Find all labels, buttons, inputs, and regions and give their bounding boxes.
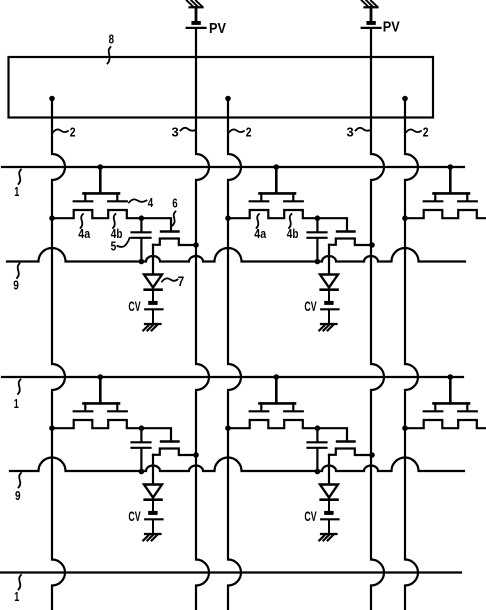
capacitor CV thin plate (cell B2) xyxy=(321,518,338,520)
diode 7 cathode bar (cell A2) xyxy=(321,288,338,291)
svg-text:1: 1 xyxy=(14,589,19,604)
svg-text:PV: PV xyxy=(209,21,226,37)
transistor 4 top electrode bar (cell B1) xyxy=(84,402,120,405)
source/drain wire with channel bumps 4a,4b (cell A3) xyxy=(405,210,486,218)
ground symbol (cell B2) xyxy=(321,533,337,535)
svg-text:4a: 4a xyxy=(254,227,267,241)
wire diode to capacitor CV (cell B2) xyxy=(328,500,330,511)
leader tilde for label 7 xyxy=(162,278,178,281)
photovoltaic cell PV2 thin plate xyxy=(362,27,381,29)
svg-text:1: 1 xyxy=(14,184,19,199)
transistor 6 channel (cell B2) xyxy=(329,449,372,456)
svg-text:4b: 4b xyxy=(287,227,299,241)
wire diode to capacitor CV (cell A2) xyxy=(328,290,330,301)
svg-text:CV: CV xyxy=(128,298,141,314)
transistor 4a/4b gate bars (cell A1) xyxy=(74,200,127,202)
row line 1 (third, bottom) xyxy=(0,571,461,573)
transistor 6 channel (cell B1) xyxy=(153,449,196,456)
junction dot of column line 2 (second) inside bus box xyxy=(225,96,231,102)
leader tilde for label 2 xyxy=(406,129,421,132)
column line 3 (second, from PV2) with hops over row lines 1 xyxy=(371,29,384,610)
leader tilde for label 2 xyxy=(229,129,244,132)
row line 1 (first) xyxy=(2,166,464,168)
transistor 4 gate stub (cell A1) xyxy=(99,167,102,193)
transistor 4 electrode legs (cell A2) xyxy=(261,193,293,200)
storage capacitor 5 stem and plates (cell B1) xyxy=(132,428,151,471)
source/drain wire with channel bumps 4a,4b (cell B3) xyxy=(405,420,486,428)
ground symbol (cell A2) xyxy=(321,323,337,325)
junction dot on row 1 (cell A3) xyxy=(448,164,454,170)
junction dot on row 1 (cell B2) xyxy=(274,374,280,380)
leader squiggle for label 8 xyxy=(108,47,111,64)
column line 2 (second) with hops over row lines 1 xyxy=(228,99,241,610)
transistor 4 electrode legs (cell B2) xyxy=(261,403,293,410)
transistor 4 gate stub (cell B1) xyxy=(99,377,102,403)
photovoltaic cell PV1 top stem xyxy=(195,7,198,21)
source/drain wire with channel bumps 4a,4b (cell B1) xyxy=(52,420,171,442)
junction dot on row 1 (cell A1) xyxy=(98,164,104,170)
column line 2 (first) with hops over row lines 1 xyxy=(52,99,65,610)
capacitor CV thick plate (cell A1) xyxy=(148,301,157,305)
junction dot capacitor 5 to row 9 (cell B1) xyxy=(139,469,145,475)
junction dot capacitor 5 to row 9 (cell A1) xyxy=(139,259,145,265)
row line 9 (first) with hop bumps xyxy=(7,248,465,262)
svg-text:6: 6 xyxy=(172,196,177,211)
svg-text:CV: CV xyxy=(304,508,317,524)
wire transistor 6 down to diode (cell B2) xyxy=(328,455,330,484)
photovoltaic cell PV1 light hatches xyxy=(187,0,203,6)
diode 7 triangle (cell A2) xyxy=(320,275,338,288)
transistor 4 top electrode bar (cell B2) xyxy=(260,402,296,405)
diode 7 triangle (cell B1) xyxy=(144,485,162,498)
capacitor CV thick plate (cell B1) xyxy=(148,511,157,515)
transistor 4 electrode legs (cell A3) xyxy=(435,193,467,200)
transistor 4 top electrode bar (cell B3) xyxy=(434,402,470,405)
svg-text:2: 2 xyxy=(246,124,252,139)
photovoltaic cell PV1 light-hatch bar xyxy=(190,6,203,8)
photovoltaic cell PV2 light-hatch bar xyxy=(365,6,378,8)
transistor 4a/4b gate bars (cell B3) xyxy=(424,410,477,412)
junction dot on column 2 (cell B3) xyxy=(402,425,408,431)
photovoltaic cell PV2 thick plate xyxy=(366,21,375,25)
junction dot on column 2 (cell B2) xyxy=(225,425,231,431)
junction dot on row 1 (cell B3) xyxy=(448,374,454,380)
diode 7 cathode bar (cell B2) xyxy=(321,498,338,501)
ground symbol (cell B1) xyxy=(145,533,161,535)
leader squiggle for label 4a xyxy=(81,214,84,228)
leader squiggle for label 4b xyxy=(113,214,116,228)
label 9 for first row line 9 xyxy=(17,264,20,279)
photovoltaic cell PV1 thick plate xyxy=(191,21,200,25)
transistor 4 top electrode bar (cell A2) xyxy=(260,192,296,195)
junction dot on column 2 (cell A1) xyxy=(49,215,55,221)
svg-text:7: 7 xyxy=(178,274,185,289)
source/drain wire with channel bumps 4a,4b (cell A2) xyxy=(228,210,347,232)
capacitor CV thin plate (cell A1) xyxy=(145,308,162,310)
junction dot on column 2 (cell A2) xyxy=(225,215,231,221)
svg-text:9: 9 xyxy=(13,278,19,293)
column line 3 (first, from PV1) with hops over row lines 1 xyxy=(196,29,209,610)
photovoltaic cell PV1 thin plate xyxy=(187,27,206,29)
junction dot at storage node (cell B1) xyxy=(139,425,145,431)
junction dot capacitor 5 to row 9 (cell A2) xyxy=(315,259,321,265)
junction dot at storage node (cell A2) xyxy=(315,215,321,221)
transistor 6 channel (cell A2) xyxy=(329,239,372,246)
transistor 6 gate bar (cell B1) xyxy=(161,440,179,442)
svg-text:CV: CV xyxy=(128,508,141,524)
transistor 4 electrode legs (cell B1) xyxy=(85,403,117,410)
wire diode to capacitor CV (cell A1) xyxy=(152,290,154,301)
photovoltaic cell PV2 light hatches xyxy=(362,0,378,6)
diode 7 triangle (cell B2) xyxy=(320,485,338,498)
transistor 4a/4b gate bars (cell B1) xyxy=(74,410,127,412)
transistor 6 gate bar (cell A2) xyxy=(337,230,355,232)
transistor 4 top electrode bar (cell A1) xyxy=(84,192,120,195)
junction dot at storage node (cell B2) xyxy=(315,425,321,431)
leader for label 5 xyxy=(118,238,130,247)
wire transistor 6 down to diode (cell A2) xyxy=(328,245,330,274)
label 1 for second row line xyxy=(18,380,21,395)
svg-text:5: 5 xyxy=(111,238,117,253)
svg-text:9: 9 xyxy=(15,488,21,503)
junction dot transistor 6 to column 3 (cell A2) xyxy=(369,242,375,248)
capacitor CV thin plate (cell B1) xyxy=(145,518,162,520)
row line 9 (second) with hop bumps xyxy=(10,458,464,472)
leader squiggle for label 4b xyxy=(289,214,292,228)
leader squiggle for label 4a xyxy=(257,214,260,228)
leader tilde for label 2 xyxy=(53,129,68,132)
diode 7 cathode bar (cell B1) xyxy=(145,498,162,501)
leader tilde for label 3 xyxy=(181,128,196,131)
junction dot on column 2 (cell B1) xyxy=(49,425,55,431)
svg-text:8: 8 xyxy=(109,32,114,47)
transistor 6 channel (cell A1) xyxy=(153,239,196,246)
row line 1 (second) xyxy=(2,376,463,378)
wire capacitor CV to ground (cell B1) xyxy=(152,520,154,534)
junction dot on row 1 (cell B1) xyxy=(98,374,104,380)
transistor 4a/4b gate bars (cell A2) xyxy=(250,200,303,202)
junction dot transistor 6 to column 3 (cell A1) xyxy=(193,242,199,248)
source/drain wire with channel bumps 4a,4b (cell B2) xyxy=(228,420,347,442)
junction dot on column 2 (cell A3) xyxy=(402,215,408,221)
label 9 for second row line 9 xyxy=(19,473,22,488)
svg-text:1: 1 xyxy=(14,396,19,411)
wire capacitor CV to ground (cell B2) xyxy=(328,520,330,534)
transistor 6 gate bar (cell A1) xyxy=(161,230,179,232)
junction dot capacitor 5 to row 9 (cell B2) xyxy=(315,469,321,475)
capacitor CV thick plate (cell A2) xyxy=(324,301,333,305)
diode 7 triangle (cell A1) xyxy=(144,275,162,288)
leader tilde for label 3 xyxy=(356,128,371,131)
transistor 4a/4b gate bars (cell A3) xyxy=(424,200,477,202)
leader squiggle for label 6 xyxy=(173,212,176,226)
label 1 for bottom row line xyxy=(19,575,22,590)
transistor 4 top electrode bar (cell A3) xyxy=(434,192,470,195)
svg-text:3: 3 xyxy=(347,124,354,139)
bus line box 8 xyxy=(9,57,434,118)
storage capacitor 5 stem and plates (cell B2) xyxy=(308,428,327,471)
junction dot of column line 2 (first) inside bus box xyxy=(49,96,55,102)
capacitor CV thin plate (cell A2) xyxy=(321,308,338,310)
svg-text:2: 2 xyxy=(70,124,76,139)
svg-text:CV: CV xyxy=(304,298,317,314)
svg-text:4a: 4a xyxy=(78,227,91,241)
photovoltaic cell PV2 top stem xyxy=(370,7,373,21)
ground symbol (cell A1) xyxy=(145,323,161,325)
storage capacitor 5 stem and plates (cell A1) xyxy=(132,218,151,261)
wire diode to capacitor CV (cell B1) xyxy=(152,500,154,511)
junction dot at storage node (cell A1) xyxy=(139,215,145,221)
transistor 6 gate bar (cell B2) xyxy=(337,440,355,442)
source/drain wire with channel bumps 4a,4b (cell A1) xyxy=(52,210,171,232)
transistor 4 gate stub (cell B3) xyxy=(449,377,452,403)
junction dot transistor 6 to column 3 (cell B1) xyxy=(193,452,199,458)
junction dot of column line 2 (third) inside bus box xyxy=(402,96,408,102)
svg-text:PV: PV xyxy=(383,20,400,36)
transistor 4 gate stub (cell A2) xyxy=(275,167,278,193)
storage capacitor 5 stem and plates (cell A2) xyxy=(308,218,327,261)
diode 7 cathode bar (cell A1) xyxy=(145,288,162,291)
svg-text:4: 4 xyxy=(148,195,154,210)
transistor 4a/4b gate bars (cell B2) xyxy=(250,410,303,412)
capacitor CV thick plate (cell B2) xyxy=(324,511,333,515)
wire capacitor CV to ground (cell A1) xyxy=(152,310,154,324)
wire transistor 6 down to diode (cell B1) xyxy=(152,455,154,484)
transistor 4 gate stub (cell A3) xyxy=(449,167,452,193)
column line 2 (third) with hops over row lines 1 xyxy=(405,99,418,610)
transistor 4 electrode legs (cell B3) xyxy=(435,403,467,410)
svg-text:2: 2 xyxy=(423,124,429,139)
junction dot on row 1 (cell A2) xyxy=(274,164,280,170)
transistor 4 electrode legs (cell A1) xyxy=(85,193,117,200)
wire transistor 6 down to diode (cell A1) xyxy=(152,245,154,274)
wire capacitor CV to ground (cell A2) xyxy=(328,310,330,324)
svg-text:3: 3 xyxy=(172,124,179,139)
label 1 for first row line xyxy=(19,170,22,185)
junction dot transistor 6 to column 3 (cell B2) xyxy=(369,452,375,458)
leader tilde for label 4 xyxy=(129,199,147,202)
transistor 4 gate stub (cell B2) xyxy=(275,377,278,403)
